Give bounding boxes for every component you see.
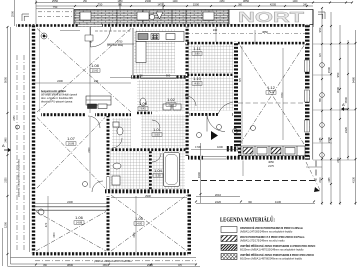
svg-text:5.60: 5.60 (154, 133, 160, 137)
svg-text:(A/B/A1) 247/300/249mm na celo: (A/B/A1) 247/300/249mm na celoplošné lep… (240, 230, 293, 233)
svg-text:900: 900 (166, 74, 171, 78)
svg-text:1.12: 1.12 (267, 85, 276, 90)
svg-text:A': A' (342, 102, 346, 107)
svg-text:1400: 1400 (292, 1, 298, 3)
svg-text:1.09: 1.09 (139, 101, 148, 106)
svg-text:1500: 1500 (193, 2, 200, 6)
svg-text:2900: 2900 (145, 194, 151, 198)
svg-text:5.30: 5.30 (155, 174, 161, 178)
svg-text:1650: 1650 (137, 74, 143, 78)
svg-text:1.01: 1.01 (153, 127, 162, 132)
svg-text:4.90: 4.90 (194, 82, 200, 86)
svg-text:1.04: 1.04 (154, 168, 163, 173)
svg-text:1155: 1155 (320, 137, 322, 143)
svg-text:1.02: 1.02 (167, 97, 176, 102)
svg-text:(A/B/A1) 372/175/249mm na zdíc: (A/B/A1) 372/175/249mm na zdící maltu (240, 239, 285, 242)
svg-text:2900: 2900 (147, 263, 154, 267)
svg-text:3850: 3850 (243, 0, 250, 3)
svg-text:1.11: 1.11 (193, 46, 201, 51)
svg-text:4130: 4130 (275, 200, 282, 204)
svg-text:3460: 3460 (6, 137, 8, 143)
svg-text:3470: 3470 (134, 232, 136, 238)
svg-text:14.80: 14.80 (136, 222, 143, 226)
svg-text:2420: 2420 (344, 126, 348, 133)
svg-text:2500: 2500 (11, 10, 15, 17)
svg-text:1000: 1000 (217, 145, 223, 149)
svg-text:470: 470 (44, 222, 48, 227)
svg-text:750: 750 (53, 5, 58, 9)
svg-text:6/150mm (A/B/A1) 497/150/249mm: 6/150mm (A/B/A1) 497/150/249mm na celopl… (240, 248, 304, 251)
svg-text:pásmo okapového chodníku: pásmo okapového chodníku (94, 259, 132, 263)
svg-text:1200: 1200 (4, 221, 8, 228)
svg-text:3850: 3850 (262, 30, 268, 34)
svg-text:9.45: 9.45 (140, 107, 146, 111)
svg-text:240: 240 (213, 28, 218, 32)
svg-text:2420: 2420 (338, 157, 340, 163)
svg-text:4205: 4205 (270, 2, 277, 6)
svg-text:2400: 2400 (67, 200, 73, 204)
svg-text:1200: 1200 (172, 1, 178, 3)
svg-text:NORT: NORT (238, 10, 304, 26)
svg-text:2175: 2175 (268, 164, 274, 168)
svg-text:2010: 2010 (320, 177, 322, 183)
svg-text:pásmo okapového chodníku: pásmo okapového chodníku (17, 159, 21, 197)
svg-text:16.86: 16.86 (68, 142, 75, 146)
svg-text:1850: 1850 (117, 1, 123, 3)
svg-text:1470: 1470 (157, 4, 163, 6)
svg-text:1500: 1500 (327, 66, 331, 73)
svg-text:2300: 2300 (327, 136, 331, 143)
svg-text:těsnicích PU-pásové úprava: těsnicích PU-pásové úprava (41, 101, 73, 104)
svg-text:2.15: 2.15 (168, 103, 174, 107)
svg-text:A: A (2, 143, 5, 148)
svg-text:6/100mm (A/B/A1) 497/80/249mm: 6/100mm (A/B/A1) 497/80/249mm na celoplo… (240, 257, 303, 260)
svg-text:1.07: 1.07 (67, 136, 76, 141)
svg-text:3000: 3000 (336, 86, 340, 93)
svg-text:1.10: 1.10 (193, 76, 202, 81)
svg-text:3.80: 3.80 (194, 52, 200, 56)
svg-text:4130: 4130 (352, 176, 356, 183)
svg-text:5050: 5050 (4, 76, 8, 83)
svg-text:240: 240 (94, 79, 99, 83)
svg-text:2300: 2300 (145, 0, 152, 3)
svg-text:1960: 1960 (197, 171, 201, 178)
svg-text:14.86: 14.86 (76, 221, 83, 225)
svg-text:2250: 2250 (14, 115, 16, 121)
svg-text:950: 950 (336, 72, 340, 77)
svg-text:15.60: 15.60 (92, 69, 99, 73)
svg-text:2550: 2550 (52, 0, 59, 3)
svg-text:3800: 3800 (67, 263, 74, 267)
svg-text:LEGENDA MATERIÁLŮ:: LEGENDA MATERIÁLŮ: (220, 216, 275, 224)
svg-text:1245: 1245 (329, 177, 331, 183)
svg-text:3470: 3470 (54, 232, 56, 238)
svg-text:9480: 9480 (352, 76, 356, 83)
svg-text:(Přechod. lišta): (Přechod. lišta) (107, 44, 123, 47)
svg-text:1.08: 1.08 (91, 63, 100, 68)
svg-text:17.45: 17.45 (268, 91, 275, 95)
svg-text:1730: 1730 (195, 145, 201, 149)
svg-text:1530: 1530 (102, 265, 108, 267)
svg-text:1.06: 1.06 (75, 215, 84, 220)
svg-text:2250: 2250 (6, 177, 8, 183)
svg-text:4650: 4650 (268, 160, 274, 164)
svg-text:750: 750 (98, 2, 103, 6)
svg-text:2010: 2010 (215, 193, 222, 197)
svg-text:1.05: 1.05 (135, 216, 144, 221)
svg-text:2400: 2400 (57, 79, 63, 83)
svg-text:2420: 2420 (215, 200, 222, 204)
svg-text:950: 950 (318, 27, 322, 32)
svg-text:2250: 2250 (219, 1, 225, 3)
